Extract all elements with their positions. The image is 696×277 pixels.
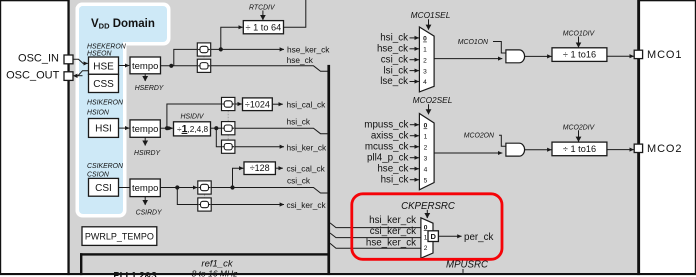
svg-text:hse_ck: hse_ck: [377, 163, 408, 174]
svg-text:5: 5: [424, 177, 428, 184]
svg-text:hse_ker_ck: hse_ker_ck: [366, 237, 416, 248]
svg-text:csi_ck: csi_ck: [381, 54, 408, 65]
svg-text:lse_ck: lse_ck: [380, 76, 408, 87]
svg-text:HSIKERON: HSIKERON: [87, 99, 123, 106]
svg-text:÷128: ÷128: [250, 163, 270, 173]
svg-text:hsi_ck: hsi_ck: [381, 174, 409, 185]
svg-text:MCO2: MCO2: [647, 143, 682, 155]
svg-text:3: 3: [423, 68, 427, 75]
svg-text:CSS: CSS: [93, 79, 114, 90]
svg-text:2: 2: [423, 57, 427, 64]
svg-text:2: 2: [424, 245, 428, 252]
svg-text:3: 3: [424, 155, 428, 162]
svg-text:÷ 1 to 64: ÷ 1 to 64: [246, 22, 282, 32]
svg-text:csi_ck: csi_ck: [287, 175, 311, 185]
svg-text:MCO1SEL: MCO1SEL: [411, 10, 451, 20]
svg-text:tempo: tempo: [132, 61, 158, 72]
svg-text:0: 0: [424, 224, 428, 231]
svg-text:CSIKERON: CSIKERON: [87, 163, 123, 170]
svg-text:hsi_cal_ck: hsi_cal_ck: [287, 99, 327, 109]
svg-text:hsi_ck: hsi_ck: [380, 33, 408, 44]
svg-text:HSE: HSE: [93, 61, 114, 72]
svg-text:mpuss_ck: mpuss_ck: [364, 119, 408, 130]
svg-text:hse_ker_ck: hse_ker_ck: [287, 45, 330, 55]
svg-text:÷1024: ÷1024: [245, 99, 270, 109]
svg-text:CSIRDY: CSIRDY: [136, 209, 163, 216]
svg-text:0: 0: [424, 122, 428, 129]
svg-text:÷ 1 to16: ÷ 1 to16: [563, 50, 596, 60]
svg-text:HSI: HSI: [95, 124, 112, 135]
svg-text:per_ck: per_ck: [464, 232, 494, 243]
svg-text:MCO2ON: MCO2ON: [464, 133, 494, 140]
svg-text:HSION: HSION: [87, 110, 109, 117]
svg-text:HSIDIV: HSIDIV: [181, 114, 205, 121]
svg-text:tempo: tempo: [132, 124, 158, 135]
svg-text:÷ 1 to16: ÷ 1 to16: [563, 144, 596, 154]
svg-text:mcuss_ck: mcuss_ck: [365, 141, 409, 152]
svg-text:CSI: CSI: [95, 183, 112, 194]
svg-text:MCO2DIV: MCO2DIV: [563, 124, 596, 131]
svg-text:MPUSRC: MPUSRC: [446, 260, 489, 271]
svg-text:axiss_ck: axiss_ck: [371, 130, 409, 141]
svg-text:hsi_ck: hsi_ck: [287, 116, 311, 126]
svg-text:hsi_ker_ck: hsi_ker_ck: [287, 142, 328, 152]
svg-text:D: D: [430, 232, 436, 241]
svg-text:1: 1: [423, 47, 427, 54]
svg-text:1: 1: [424, 235, 428, 242]
svg-text:HSERDY: HSERDY: [135, 85, 165, 92]
svg-text:MCO1DIV: MCO1DIV: [563, 31, 596, 38]
svg-text:lsi_ck: lsi_ck: [384, 65, 409, 76]
svg-text:8 to 16 MHz: 8 to 16 MHz: [192, 269, 239, 277]
svg-text:hse_ck: hse_ck: [287, 55, 314, 65]
svg-text:csi_cal_ck: csi_cal_ck: [287, 163, 326, 173]
svg-text:csi_ker_ck: csi_ker_ck: [370, 226, 416, 237]
svg-text:4: 4: [424, 166, 428, 173]
svg-text:RTCDIV: RTCDIV: [249, 5, 276, 12]
svg-text:MCO1: MCO1: [647, 49, 682, 61]
svg-text:PWRLP_TEMPO: PWRLP_TEMPO: [85, 232, 154, 242]
svg-text:1: 1: [424, 133, 428, 140]
svg-text:csi_ker_ck: csi_ker_ck: [287, 200, 327, 210]
svg-text:CKPERSRC: CKPERSRC: [401, 201, 456, 212]
svg-text:hse_ck: hse_ck: [377, 44, 408, 55]
svg-text:÷1,2,4,8: ÷1,2,4,8: [177, 123, 209, 135]
svg-text:OSC_IN: OSC_IN: [18, 52, 59, 64]
svg-text:pll4_p_ck: pll4_p_ck: [367, 152, 408, 163]
svg-text:tempo: tempo: [132, 183, 158, 194]
svg-text:hsi_ker_ck: hsi_ker_ck: [369, 215, 416, 226]
svg-text:CSION: CSION: [87, 171, 109, 178]
svg-text:MCO1ON: MCO1ON: [458, 39, 488, 46]
svg-text:MCO2SEL: MCO2SEL: [413, 95, 453, 105]
svg-text:HSEKERON: HSEKERON: [87, 43, 126, 50]
svg-text:HSIRDY: HSIRDY: [134, 150, 161, 157]
svg-text:2: 2: [424, 144, 428, 151]
svg-text:OSC_OUT: OSC_OUT: [6, 69, 59, 81]
svg-text:4: 4: [423, 79, 427, 86]
svg-text:0: 0: [423, 36, 427, 43]
